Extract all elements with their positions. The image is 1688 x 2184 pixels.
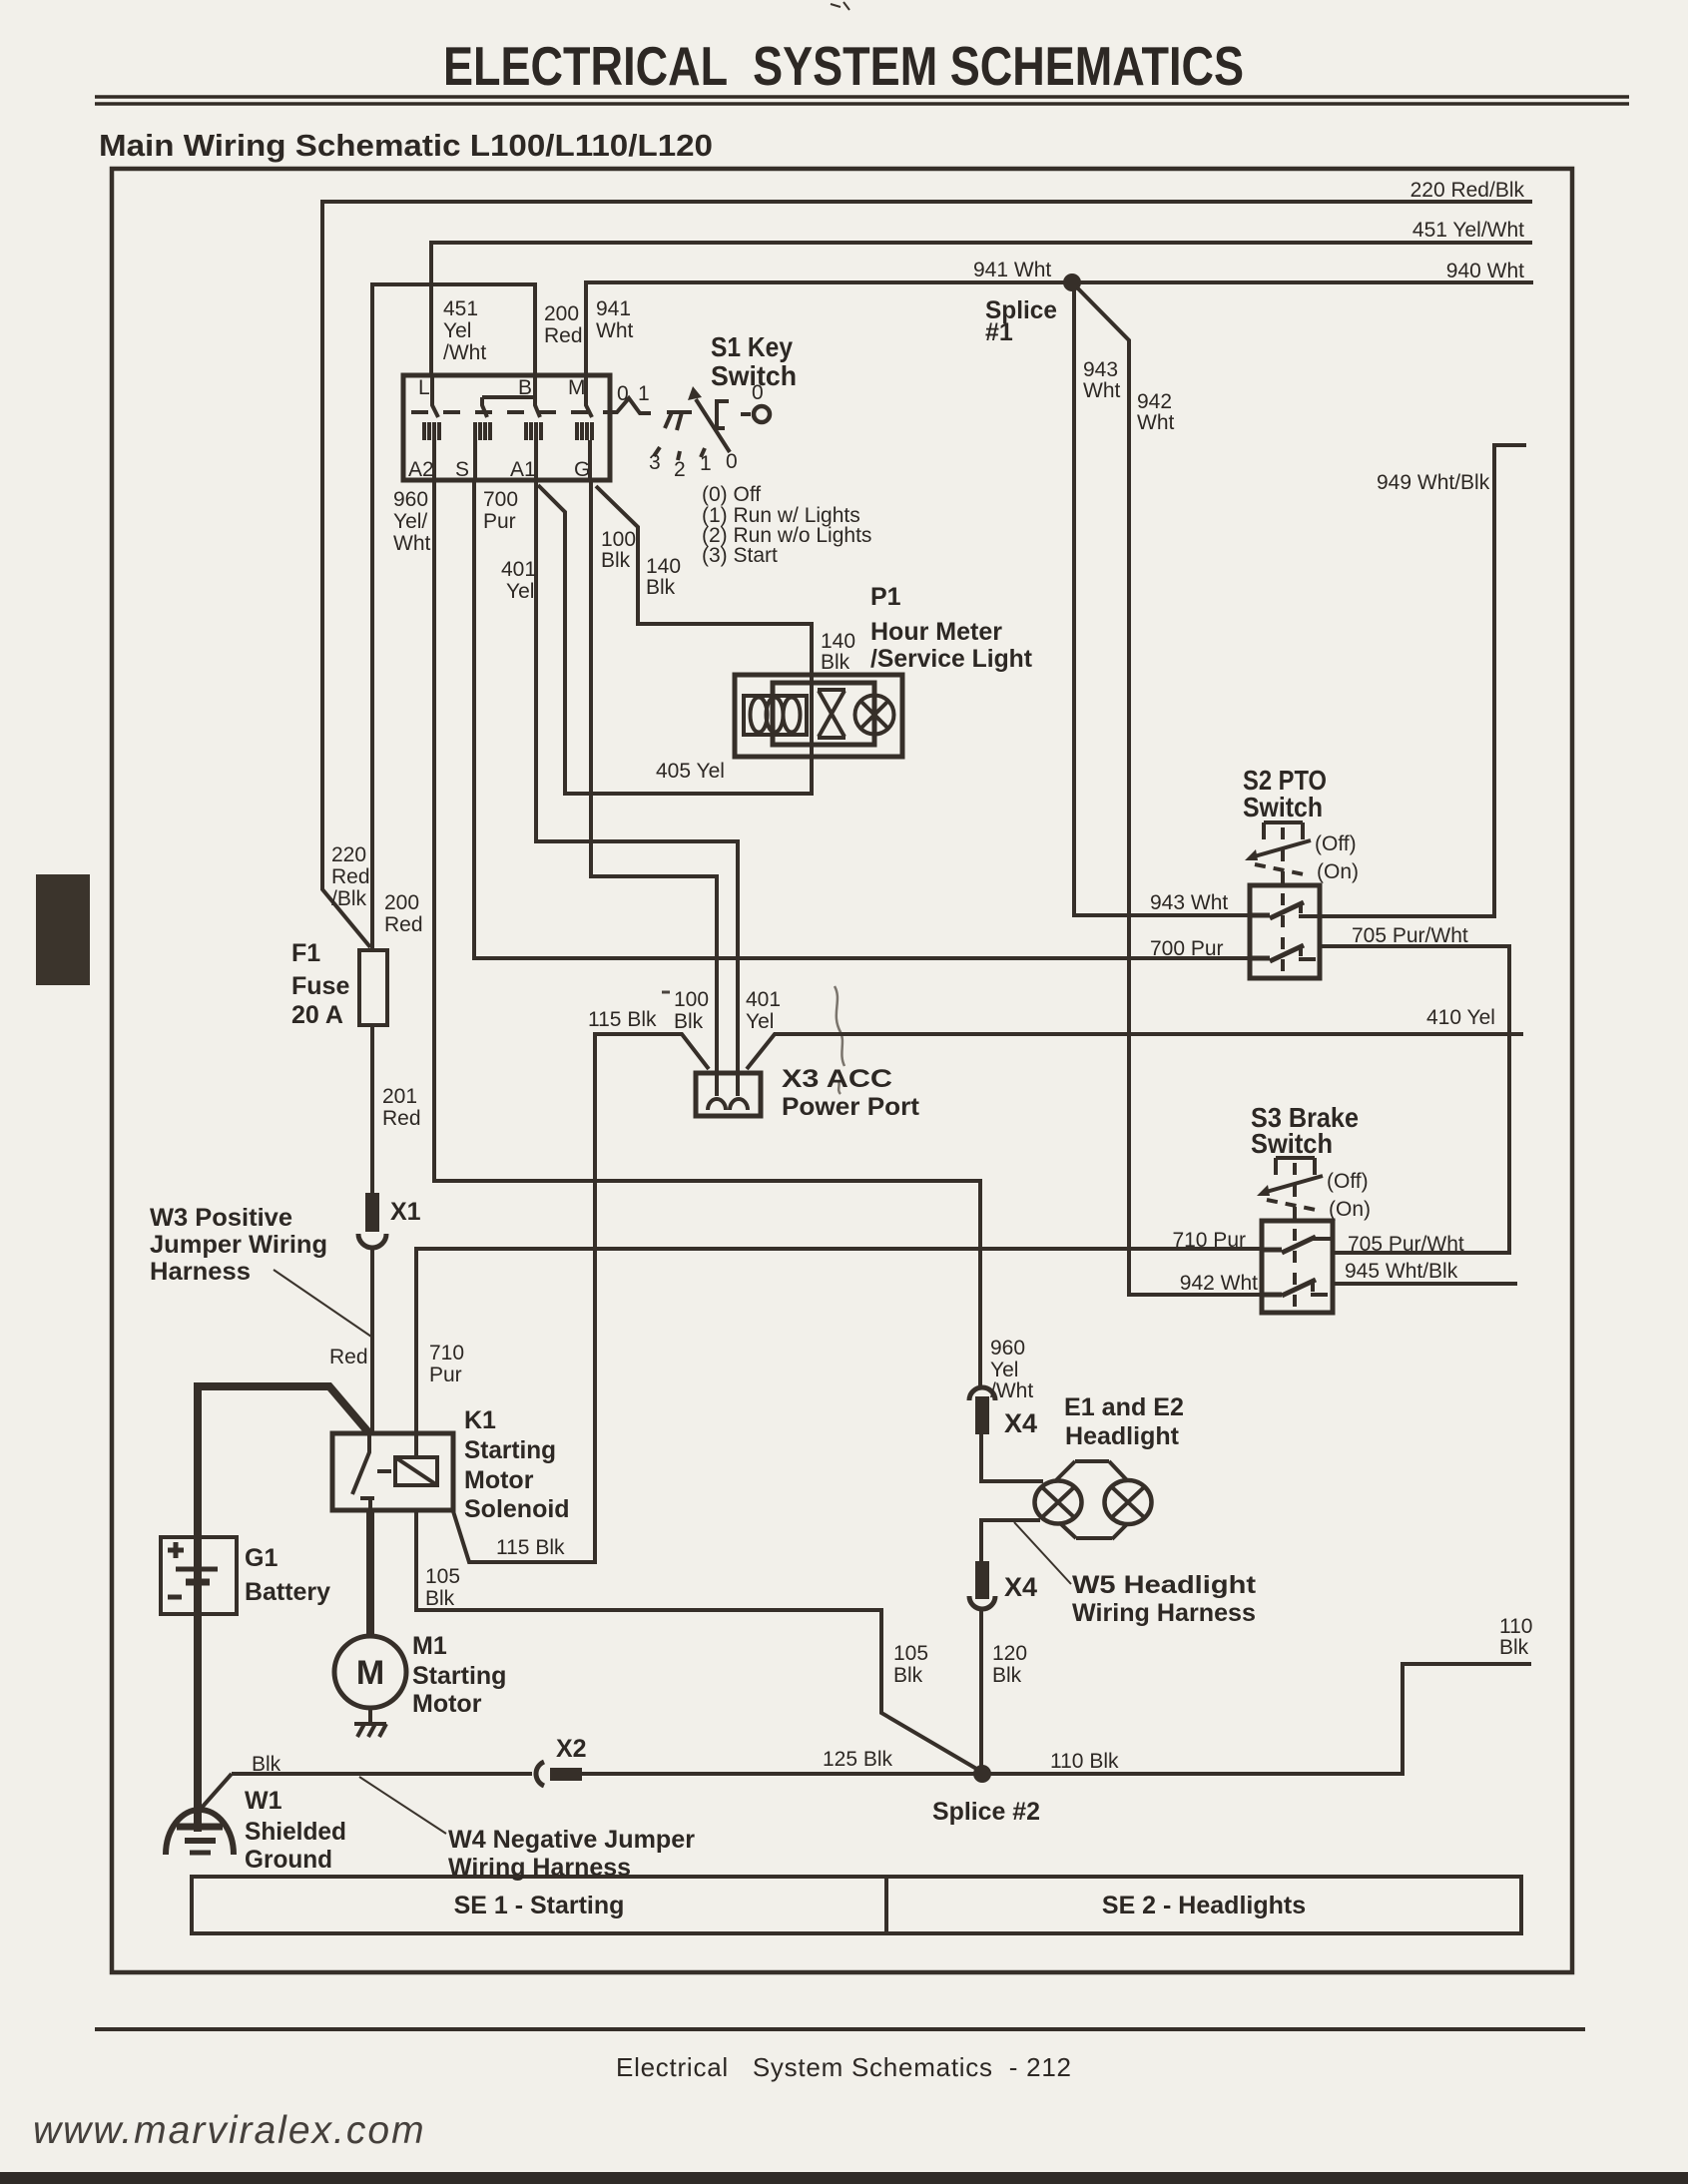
svg-text:Hour Meter: Hour Meter	[870, 618, 1002, 646]
svg-text:Wht: Wht	[596, 319, 634, 342]
svg-text:W4 Negative Jumper: W4 Negative Jumper	[448, 1826, 695, 1854]
svg-text:Fuse: Fuse	[291, 972, 349, 1000]
svg-text:Shielded: Shielded	[245, 1818, 346, 1846]
svg-text:Blk: Blk	[893, 1664, 923, 1687]
svg-text:405 Yel: 405 Yel	[656, 760, 725, 783]
svg-text:(3) Start: (3) Start	[702, 544, 778, 567]
svg-text:Red: Red	[382, 1107, 421, 1130]
svg-text:Starting: Starting	[412, 1662, 506, 1690]
svg-text:710 Pur: 710 Pur	[1172, 1229, 1246, 1252]
svg-text:401: 401	[501, 558, 536, 581]
svg-text:700 Pur: 700 Pur	[1150, 937, 1224, 960]
svg-text:Ground: Ground	[245, 1846, 332, 1874]
svg-text:Jumper Wiring: Jumper Wiring	[150, 1231, 327, 1259]
svg-text:Motor: Motor	[464, 1466, 534, 1494]
svg-text:/Blk: /Blk	[331, 887, 367, 910]
svg-text:140: 140	[821, 630, 855, 653]
svg-text:Red: Red	[331, 865, 370, 888]
svg-text:451: 451	[443, 297, 478, 320]
svg-text:A2: A2	[408, 458, 434, 481]
svg-text:Blk: Blk	[601, 549, 631, 572]
svg-text:Splice #2: Splice #2	[932, 1798, 1040, 1826]
svg-text:A1: A1	[510, 458, 536, 481]
svg-text:Harness: Harness	[150, 1258, 251, 1286]
svg-text:W3 Positive: W3 Positive	[150, 1204, 292, 1232]
svg-text:220: 220	[331, 843, 366, 866]
svg-text:/Wht: /Wht	[443, 341, 486, 364]
svg-text:Solenoid: Solenoid	[464, 1495, 570, 1523]
svg-text:3: 3	[649, 451, 661, 474]
svg-text:(Off): (Off)	[1327, 1170, 1369, 1193]
svg-text:Wht: Wht	[393, 532, 431, 555]
svg-text:705 Pur/Wht: 705 Pur/Wht	[1352, 924, 1468, 947]
svg-text:Wiring Harness: Wiring Harness	[1072, 1599, 1256, 1627]
svg-text:Switch: Switch	[711, 360, 797, 391]
svg-text:Blk: Blk	[646, 576, 676, 599]
svg-text:SE 2 - Headlights: SE 2 - Headlights	[1102, 1892, 1306, 1919]
svg-text:K1: K1	[464, 1406, 496, 1434]
svg-text:Pur: Pur	[429, 1364, 462, 1386]
svg-text:Pur: Pur	[483, 510, 516, 533]
svg-text:960: 960	[990, 1337, 1025, 1360]
svg-text:Electrical System Schematics: Electrical System Schematics - 212	[616, 2052, 1071, 2082]
svg-text:120: 120	[992, 1642, 1027, 1665]
svg-text:1: 1	[700, 452, 712, 475]
svg-text:(0) Off: (0) Off	[702, 483, 761, 506]
svg-text:Blk: Blk	[821, 651, 850, 674]
svg-text:941 Wht: 941 Wht	[973, 259, 1051, 281]
svg-text:Main Wiring Schematic L100/L11: Main Wiring Schematic L100/L110/L120	[99, 128, 713, 163]
svg-text:Blk: Blk	[425, 1587, 455, 1610]
svg-text:Switch: Switch	[1243, 792, 1323, 822]
svg-text:105: 105	[893, 1642, 928, 1665]
svg-text:Switch: Switch	[1251, 1128, 1333, 1159]
svg-text:940 Wht: 940 Wht	[1446, 260, 1524, 282]
svg-text:0: 0	[726, 450, 738, 473]
svg-text:Yel/: Yel/	[393, 510, 427, 533]
svg-text:949 Wht/Blk: 949 Wht/Blk	[1377, 471, 1490, 494]
svg-text:X4: X4	[1004, 1408, 1037, 1438]
svg-text:1: 1	[638, 382, 650, 405]
svg-text:700: 700	[483, 488, 518, 511]
svg-text:200: 200	[544, 302, 579, 325]
svg-text:X1: X1	[390, 1198, 421, 1226]
svg-text:0: 0	[617, 382, 629, 405]
svg-text:Wht: Wht	[1137, 411, 1175, 434]
svg-text:W5 Headlight: W5 Headlight	[1072, 1571, 1257, 1599]
svg-text:Blk: Blk	[992, 1664, 1022, 1687]
svg-text:200: 200	[384, 891, 419, 914]
svg-text:E1 and E2: E1 and E2	[1064, 1393, 1184, 1421]
svg-text:F1: F1	[291, 939, 320, 967]
svg-text:Yel: Yel	[506, 580, 534, 603]
svg-text:G: G	[574, 458, 590, 481]
svg-text:Motor: Motor	[412, 1690, 482, 1718]
svg-text:140: 140	[646, 555, 681, 578]
svg-text:Headlight: Headlight	[1065, 1422, 1180, 1450]
svg-text:M1: M1	[412, 1632, 447, 1660]
svg-text:Blk: Blk	[1499, 1636, 1529, 1659]
svg-text:X4: X4	[1004, 1572, 1037, 1602]
svg-text:Red: Red	[544, 324, 583, 347]
svg-text:Power Port: Power Port	[782, 1093, 920, 1121]
svg-text:Blk: Blk	[252, 1753, 281, 1776]
svg-text:X2: X2	[556, 1735, 587, 1763]
svg-text:125 Blk: 125 Blk	[823, 1748, 893, 1771]
svg-text:401: 401	[746, 988, 781, 1011]
svg-text:X3 ACC: X3 ACC	[782, 1065, 892, 1093]
svg-text:2: 2	[674, 458, 686, 481]
svg-text:110 Blk: 110 Blk	[1050, 1750, 1119, 1773]
svg-text:20 A: 20 A	[291, 1001, 343, 1029]
svg-text:(Off): (Off)	[1315, 832, 1357, 855]
svg-text:M: M	[568, 376, 586, 399]
svg-text:/Service Light: /Service Light	[870, 645, 1033, 673]
svg-text:Battery: Battery	[245, 1578, 330, 1606]
svg-text:945 Wht/Blk: 945 Wht/Blk	[1345, 1260, 1458, 1283]
svg-text:Wht: Wht	[1083, 379, 1121, 402]
svg-text:#1: #1	[985, 318, 1013, 346]
svg-text:/Wht: /Wht	[990, 1379, 1033, 1402]
svg-text:S: S	[455, 458, 469, 481]
svg-text:Wiring Harness: Wiring Harness	[448, 1854, 631, 1882]
svg-text:M: M	[356, 1654, 384, 1692]
svg-text:942: 942	[1137, 390, 1172, 413]
svg-text:100: 100	[601, 528, 636, 551]
svg-text:Yel: Yel	[746, 1010, 774, 1033]
svg-text:Starting: Starting	[464, 1436, 556, 1464]
svg-text:B: B	[518, 376, 532, 399]
svg-text:115 Blk: 115 Blk	[496, 1536, 565, 1559]
svg-text:W1: W1	[245, 1787, 282, 1815]
svg-text:Yel: Yel	[990, 1359, 1018, 1381]
svg-text:220 Red/Blk: 220 Red/Blk	[1410, 179, 1525, 202]
svg-text:942 Wht: 942 Wht	[1180, 1272, 1258, 1295]
svg-text:G1: G1	[245, 1544, 278, 1572]
svg-text:105: 105	[425, 1565, 460, 1588]
svg-text:960: 960	[393, 488, 428, 511]
svg-text:943 Wht: 943 Wht	[1150, 891, 1228, 914]
svg-text:Red: Red	[329, 1346, 368, 1368]
svg-text:110: 110	[1499, 1615, 1532, 1638]
svg-text:710: 710	[429, 1342, 464, 1365]
svg-text:943: 943	[1083, 358, 1118, 381]
svg-text:201: 201	[382, 1085, 417, 1108]
svg-text:Yel: Yel	[443, 319, 471, 342]
svg-text:705 Pur/Wht: 705 Pur/Wht	[1348, 1233, 1464, 1256]
svg-text:(On): (On)	[1329, 1198, 1371, 1221]
svg-text:L: L	[418, 376, 430, 399]
svg-text:941: 941	[596, 297, 631, 320]
svg-text:ELECTRICAL SYSTEM SCHEMATICS: ELECTRICAL SYSTEM SCHEMATICS	[443, 35, 1244, 97]
svg-text:100: 100	[674, 988, 709, 1011]
svg-text:115 Blk: 115 Blk	[588, 1008, 657, 1031]
svg-text:SE 1 - Starting: SE 1 - Starting	[454, 1892, 625, 1919]
svg-text:S1 Key: S1 Key	[711, 331, 793, 362]
svg-text:451 Yel/Wht: 451 Yel/Wht	[1412, 219, 1524, 242]
svg-text:(On): (On)	[1317, 860, 1359, 883]
svg-text:P1: P1	[870, 583, 901, 611]
svg-text:410 Yel: 410 Yel	[1426, 1006, 1495, 1029]
svg-text:Blk: Blk	[674, 1010, 704, 1033]
svg-text:www.marviralex.com: www.marviralex.com	[33, 2109, 426, 2152]
svg-text:Red: Red	[384, 913, 423, 936]
